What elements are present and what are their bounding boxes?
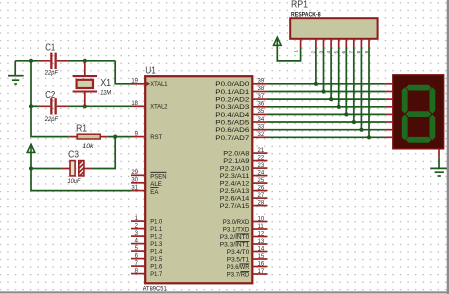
svg-text:P1.3: P1.3 bbox=[150, 241, 162, 248]
display pin stubs bbox=[386, 84, 393, 138]
svg-text:P0.5/AD5: P0.5/AD5 bbox=[215, 120, 249, 127]
display segment g bbox=[406, 111, 432, 117]
svg-text:5: 5 bbox=[334, 51, 339, 54]
op-amp U1 body (AT89C51) bbox=[145, 76, 252, 283]
svg-text:P3.6/WR: P3.6/WR bbox=[227, 264, 250, 271]
svg-text:RP1: RP1 bbox=[291, 0, 308, 11]
svg-text:29: 29 bbox=[131, 170, 138, 176]
RP1 pins 2-9 stubs bbox=[316, 39, 369, 47]
wire C3 to power node bbox=[31, 168, 62, 170]
svg-text:18: 18 bbox=[131, 101, 138, 107]
svg-text:16: 16 bbox=[258, 261, 265, 267]
svg-text:23: 23 bbox=[258, 163, 265, 169]
svg-text:P0.6/AD6: P0.6/AD6 bbox=[215, 127, 249, 134]
svg-text:25: 25 bbox=[258, 178, 265, 184]
svg-text:C1: C1 bbox=[45, 42, 55, 53]
svg-text:P3.4/T0: P3.4/T0 bbox=[227, 249, 250, 256]
svg-text:30: 30 bbox=[131, 178, 138, 184]
svg-text:XTAL1: XTAL1 bbox=[150, 81, 167, 88]
wire C2 stub left bbox=[31, 105, 39, 107]
pin numbers 10-17 bbox=[258, 216, 265, 274]
svg-text:P1.2: P1.2 bbox=[150, 234, 162, 241]
svg-text:PSEN: PSEN bbox=[150, 174, 166, 181]
capacitor C2 bbox=[39, 98, 68, 114]
pin labels P2.0/A8-P2.7/A15 bbox=[220, 151, 250, 211]
svg-text:37: 37 bbox=[258, 94, 265, 100]
pin numbers 21-28 bbox=[258, 148, 265, 207]
pin XTAL1 stub bbox=[131, 83, 145, 85]
svg-text:C2: C2 bbox=[45, 90, 55, 101]
svg-text:P0.2/AD2: P0.2/AD2 bbox=[215, 97, 249, 104]
display segment b bbox=[430, 87, 436, 113]
wire display to ground bbox=[438, 158, 440, 169]
wire XTAL1 bbox=[115, 61, 131, 84]
pin labels P1.0-P1.7 bbox=[150, 219, 162, 279]
svg-text:P0.3/AD3: P0.3/AD3 bbox=[215, 104, 249, 111]
svg-text:39: 39 bbox=[258, 79, 265, 85]
pin numbers 1-8 bbox=[135, 216, 139, 275]
wire GND to node A bbox=[15, 60, 39, 62]
resistor pack RP1 body bbox=[290, 18, 377, 39]
svg-text:P3.3/INT1: P3.3/INT1 bbox=[220, 241, 250, 248]
svg-text:6: 6 bbox=[341, 51, 346, 54]
svg-text:10k: 10k bbox=[82, 143, 94, 150]
svg-text:P1.0: P1.0 bbox=[150, 219, 162, 226]
pins P1.0-P1.7 stubs bbox=[131, 221, 145, 274]
svg-text:R1: R1 bbox=[76, 123, 87, 134]
svg-text:P0.7/AD7: P0.7/AD7 bbox=[215, 135, 249, 142]
RP1 tiny pin numbers bbox=[294, 50, 369, 54]
overlines INT0 INT1 WR RD bbox=[236, 234, 250, 272]
display segment d bbox=[406, 137, 432, 143]
pins P3 stubs right bbox=[252, 222, 267, 275]
svg-text:P1.1: P1.1 bbox=[150, 226, 162, 233]
capacitor C1 bbox=[39, 53, 68, 69]
svg-text:32: 32 bbox=[258, 132, 265, 138]
svg-text:P2.4/A12: P2.4/A12 bbox=[220, 181, 250, 188]
svg-text:P2.5/A13: P2.5/A13 bbox=[220, 188, 250, 195]
svg-text:P0.1/AD1: P0.1/AD1 bbox=[215, 89, 249, 96]
display segment c bbox=[430, 115, 436, 141]
window border bottom bbox=[0, 291, 449, 293]
svg-text:U1: U1 bbox=[145, 66, 156, 77]
node C3 power junction bbox=[29, 166, 33, 170]
svg-text:17: 17 bbox=[258, 269, 265, 275]
svg-text:P1.4: P1.4 bbox=[150, 249, 162, 256]
wire RP1 pin1 to power bbox=[277, 45, 300, 61]
svg-text:13: 13 bbox=[258, 239, 265, 245]
RP1 pin 1 stub bbox=[300, 39, 302, 47]
svg-text:22pF: 22pF bbox=[44, 116, 59, 123]
svg-text:C3: C3 bbox=[68, 150, 79, 161]
resistor R1 bbox=[69, 134, 108, 139]
crystal X1 bbox=[73, 61, 98, 107]
svg-text:26: 26 bbox=[258, 185, 265, 191]
node crystal bottom junction bbox=[83, 104, 87, 108]
svg-text:22: 22 bbox=[258, 155, 265, 161]
svg-text:P3.2/INT0: P3.2/INT0 bbox=[220, 234, 250, 241]
svg-text:3: 3 bbox=[318, 51, 323, 54]
svg-text:22pF: 22pF bbox=[44, 70, 59, 77]
svg-text:8: 8 bbox=[356, 51, 361, 54]
display segment a bbox=[406, 85, 432, 91]
svg-text:EA: EA bbox=[150, 189, 159, 196]
svg-text:RST: RST bbox=[150, 134, 162, 141]
svg-text:P1.7: P1.7 bbox=[150, 271, 162, 278]
display segment e bbox=[402, 115, 408, 141]
svg-text:X1: X1 bbox=[100, 78, 111, 89]
wire left vertical C2-R1 bbox=[31, 106, 69, 136]
svg-text:P0.0/AD0: P0.0/AD0 bbox=[215, 81, 249, 88]
svg-text:P2.7/A15: P2.7/A15 bbox=[220, 203, 250, 210]
svg-text:31: 31 bbox=[131, 185, 138, 191]
svg-text:P3.7/RD: P3.7/RD bbox=[227, 271, 250, 278]
svg-text:14: 14 bbox=[258, 246, 265, 252]
wire C1 to crystal node bbox=[68, 60, 115, 62]
svg-text:10: 10 bbox=[258, 216, 265, 222]
svg-text:11: 11 bbox=[258, 224, 265, 230]
svg-text:P1.6: P1.6 bbox=[150, 264, 162, 271]
capacitor C3 (electrolytic) bbox=[62, 161, 92, 176]
svg-text:38: 38 bbox=[258, 86, 265, 92]
svg-text:P1.5: P1.5 bbox=[150, 256, 162, 263]
svg-text:15: 15 bbox=[258, 254, 265, 260]
svg-text:21: 21 bbox=[258, 148, 265, 154]
wires P0 bus to display bbox=[268, 84, 386, 138]
svg-text:P0.4/AD4: P0.4/AD4 bbox=[215, 112, 249, 119]
svg-text:2: 2 bbox=[311, 51, 316, 54]
wire left vertical C1-C2 bbox=[30, 61, 32, 107]
display segment f bbox=[402, 87, 408, 113]
pins PSEN ALE EA stubs bbox=[131, 175, 145, 190]
svg-text:12: 12 bbox=[258, 231, 265, 237]
svg-text:19: 19 bbox=[131, 79, 138, 85]
window border right bbox=[447, 0, 449, 294]
svg-text:9: 9 bbox=[364, 51, 369, 54]
wire RST down to C3 bbox=[92, 137, 115, 169]
svg-text:36: 36 bbox=[258, 102, 265, 108]
svg-text:12M: 12M bbox=[100, 89, 112, 96]
svg-text:P2.1/A9: P2.1/A9 bbox=[223, 158, 249, 165]
ground bbox=[8, 61, 24, 84]
svg-text:P2.3/A11: P2.3/A11 bbox=[220, 173, 250, 180]
svg-text:P2.6/A14: P2.6/A14 bbox=[220, 196, 250, 203]
power symbol (RP1 common) bbox=[274, 37, 282, 45]
svg-text:10uF: 10uF bbox=[68, 178, 82, 185]
svg-text:P3.0/RXD: P3.0/RXD bbox=[223, 219, 250, 226]
svg-text:P2.2/A10: P2.2/A10 bbox=[220, 166, 250, 173]
pin XTAL2 stub bbox=[131, 105, 145, 107]
pin labels P0.0/AD0-P0.7/AD7 bbox=[215, 81, 249, 142]
pin XTAL1 clock arrow bbox=[146, 82, 150, 86]
svg-text:35: 35 bbox=[258, 109, 265, 115]
pin RST stub bbox=[131, 136, 145, 138]
power symbol (left) bbox=[27, 144, 35, 152]
wire power to EA bbox=[31, 152, 131, 190]
pins P0 stubs right bbox=[252, 84, 267, 138]
wires RP1 pins to P0 rows bbox=[316, 47, 369, 137]
svg-text:RESPACK-8: RESPACK-8 bbox=[291, 12, 321, 19]
7-segment display body bbox=[393, 75, 444, 149]
svg-text:P2.0/A8: P2.0/A8 bbox=[223, 151, 249, 158]
pins P2 stubs right bbox=[252, 153, 267, 206]
node RST junction bbox=[113, 135, 117, 139]
svg-text:28: 28 bbox=[258, 200, 265, 206]
wire R1 to RST bbox=[108, 136, 131, 138]
node C2 junction bbox=[29, 104, 33, 108]
svg-text:ALE: ALE bbox=[150, 181, 162, 188]
svg-text:P3.1/TXD: P3.1/TXD bbox=[223, 226, 250, 233]
node crystal top junction bbox=[83, 59, 87, 63]
svg-text:7: 7 bbox=[349, 51, 354, 54]
svg-text:XTAL2: XTAL2 bbox=[150, 104, 167, 111]
svg-text:34: 34 bbox=[258, 117, 265, 123]
pin numbers 39-32 bbox=[258, 79, 265, 139]
pin labels P3.0-P3.7 bbox=[220, 219, 250, 279]
svg-text:P3.5/T1: P3.5/T1 bbox=[227, 256, 250, 263]
svg-text:33: 33 bbox=[258, 125, 265, 131]
ground (display) bbox=[430, 168, 448, 176]
wire C2 to XTAL2 pin bbox=[68, 105, 131, 107]
display ground pin bbox=[438, 149, 440, 158]
svg-text:4: 4 bbox=[326, 51, 331, 54]
svg-text:1: 1 bbox=[294, 50, 299, 53]
svg-text:24: 24 bbox=[258, 170, 265, 176]
node A junction bbox=[29, 59, 33, 63]
junction dots RP1 columns bbox=[314, 82, 371, 140]
pin numbers 29 30 31 bbox=[131, 170, 138, 191]
svg-text:27: 27 bbox=[258, 193, 265, 199]
